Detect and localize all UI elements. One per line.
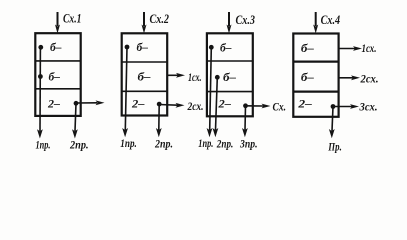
junction dot box3 section1 — [209, 45, 214, 50]
svg-text:1пр.: 1пр. — [36, 139, 51, 151]
svg-text:б–: б– — [223, 72, 236, 84]
svg-text:2–: 2– — [131, 99, 145, 111]
wire box4 output Пр. — [329, 107, 335, 139]
svg-text:1сх.: 1сх. — [188, 72, 202, 84]
svg-text:2–: 2– — [47, 99, 60, 111]
output arrow 2сх. box2 — [159, 103, 184, 108]
svg-text:б–: б– — [138, 72, 151, 84]
svg-text:Сх.2: Сх.2 — [150, 12, 170, 26]
svg-text:2пр.: 2пр. — [69, 140, 88, 152]
svg-text:3сх.: 3сх. — [359, 102, 378, 114]
junction dot box1 section1 — [38, 45, 43, 50]
svg-text:3пр.: 3пр. — [239, 139, 257, 151]
svg-text:Сх.3: Сх.3 — [236, 13, 256, 27]
wire box2 output 1пр. — [122, 47, 128, 137]
svg-text:б–: б– — [50, 42, 62, 54]
svg-text:Сх.1: Сх.1 — [63, 11, 82, 25]
wire box2 output 2пр. — [156, 104, 162, 137]
output arrow 1сх. box4 — [339, 46, 362, 51]
svg-text:2пр.: 2пр. — [216, 139, 233, 151]
box Сх.2 — [122, 33, 168, 115]
box Сх.1 — [35, 33, 80, 116]
svg-text:Пр.: Пр. — [328, 142, 342, 154]
input arrow Сх.1 — [55, 12, 60, 34]
svg-text:б–: б– — [49, 72, 61, 84]
box Сх.4 — [293, 34, 338, 117]
junction dot box3 section3 — [243, 103, 248, 108]
svg-text:2сх.: 2сх. — [360, 74, 379, 86]
svg-text:Сх.4: Сх.4 — [321, 13, 341, 27]
wire box1 output 2пр. — [72, 103, 78, 138]
input arrow Сх.3 — [227, 12, 232, 34]
junction dot box2 section3 — [157, 102, 162, 107]
wire box3 output 3пр. — [242, 106, 248, 138]
junction dot box1 section2 — [38, 74, 43, 79]
svg-text:1пр.: 1пр. — [120, 138, 137, 150]
input arrow Сх.2 — [142, 12, 147, 34]
svg-text:б–: б– — [220, 43, 232, 55]
output arrow box1 right — [76, 100, 105, 105]
svg-text:2–: 2– — [217, 99, 231, 111]
svg-text:1сх.: 1сх. — [362, 43, 377, 55]
junction dot box2 section1 — [125, 45, 130, 50]
junction dot box3 section2 — [215, 75, 220, 80]
output arrow 1сх. box2 — [167, 73, 185, 78]
svg-text:1пр.: 1пр. — [198, 138, 213, 150]
box Сх.3 — [207, 33, 253, 116]
junction dot box4 section3 — [331, 104, 336, 109]
junction dot box1 section3 — [74, 101, 79, 106]
output arrow 3сх. box4 — [333, 104, 359, 109]
svg-text:Сх.: Сх. — [273, 101, 287, 113]
svg-text:б–: б– — [301, 43, 314, 55]
wire box3 output 1пр. — [207, 47, 213, 137]
output arrow Сх. box3 — [246, 104, 271, 109]
svg-text:2–: 2– — [297, 99, 312, 111]
svg-text:2пр.: 2пр. — [154, 139, 173, 151]
svg-text:2сх.: 2сх. — [187, 101, 204, 113]
svg-text:б–: б– — [301, 72, 314, 84]
wire box1 output 1пр. — [37, 47, 43, 138]
svg-text:б–: б– — [137, 42, 149, 54]
input arrow Сх.4 — [313, 12, 318, 34]
wire box3 output 2пр. — [213, 77, 219, 137]
output arrow 2сх. box4 — [339, 75, 360, 80]
